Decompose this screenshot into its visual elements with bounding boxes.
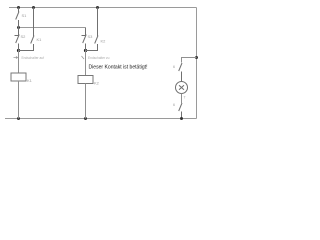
svg-text:S3: S3 (88, 34, 94, 39)
wire bottom rail (5, 118, 197, 120)
node junction bottom lamp (180, 117, 183, 120)
node junction top K1 (32, 6, 35, 9)
relay contact K2 (86, 8, 99, 51)
wire lamp to lower contact (181, 94, 183, 104)
node junction mid parallel (84, 49, 87, 52)
label Endschalter zu (82, 56, 85, 59)
wire below K2 coil (85, 84, 87, 119)
node junction top K2 (96, 6, 99, 9)
svg-text:K1: K1 (37, 37, 43, 42)
svg-text:Dieser Kontakt ist betätigt!: Dieser Kontakt ist betätigt! (89, 65, 148, 71)
wire left coil branch (18, 51, 20, 74)
svg-text:Endschalter auf: Endschalter auf (22, 56, 45, 60)
relay contact lamp bottom (179, 103, 182, 119)
wire mid coil branch (85, 51, 87, 76)
svg-text:S2: S2 (21, 34, 27, 39)
svg-text:S1: S1 (22, 13, 28, 18)
switch S3 break contact (Endschalter zu) (82, 35, 87, 51)
wire below K1 coil (18, 81, 20, 119)
node junction S1 bottom (17, 26, 20, 29)
wire mid branch drop (85, 28, 87, 36)
wire second rail (19, 27, 86, 29)
svg-text:K1: K1 (27, 78, 33, 83)
relay contact K1 (self hold) (19, 8, 35, 51)
coil K2 (78, 76, 93, 84)
svg-text:6: 6 (173, 65, 175, 69)
node junction bottom mid (84, 117, 87, 120)
label Endschalter auf (14, 57, 18, 59)
wire right edge (196, 8, 198, 119)
coil K1 (11, 73, 26, 81)
relay contact lamp top (179, 63, 182, 82)
wire lamp branch top (182, 58, 197, 63)
lamp H1 (176, 82, 188, 94)
node junction top S1 (17, 6, 20, 9)
wire top rail L1 (9, 7, 197, 9)
svg-text:K2: K2 (94, 81, 100, 86)
svg-text:6: 6 (173, 103, 175, 107)
svg-text:K2: K2 (101, 39, 107, 44)
svg-text:Endschalter zu: Endschalter zu (88, 56, 110, 60)
switch S1 make contact (16, 8, 19, 28)
node junction bottom left (17, 117, 20, 120)
switch S2 break contact (Endschalter auf) (15, 28, 20, 51)
svg-text:7: 7 (184, 96, 186, 100)
node junction right lamp tap (195, 56, 198, 59)
node junction left parallel (17, 49, 20, 52)
